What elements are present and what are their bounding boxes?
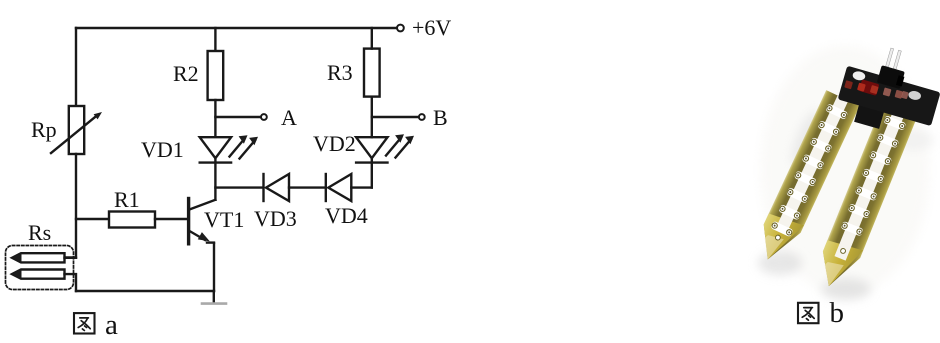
svg-text:B: B [433,105,448,130]
svg-text:VD2: VD2 [313,131,356,156]
svg-text:R2: R2 [173,61,199,86]
svg-text:a: a [105,309,118,341]
svg-text:+6V: +6V [412,15,451,40]
svg-text:Rp: Rp [31,117,57,142]
svg-text:R3: R3 [327,60,353,85]
svg-text:b: b [830,297,845,329]
svg-text:Rs: Rs [28,220,51,245]
svg-text:VD4: VD4 [325,203,368,228]
svg-text:VT1: VT1 [204,207,244,232]
svg-text:VD1: VD1 [141,137,184,162]
svg-text:A: A [281,105,297,130]
svg-text:R1: R1 [114,187,140,212]
svg-text:VD3: VD3 [254,206,297,231]
